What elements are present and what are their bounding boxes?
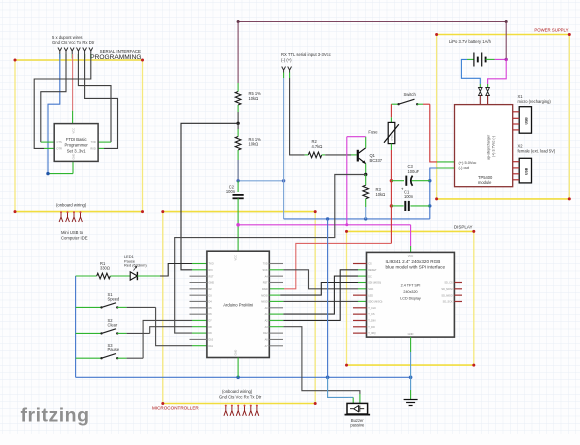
connector arrows dupont serial header — [58, 48, 93, 59]
switch S1 Speed — [76, 292, 156, 308]
svg-text:PROGRAMMING: PROGRAMMING — [90, 54, 141, 61]
svg-text:GND: GND — [234, 350, 238, 356]
wire MOSI to display SDI — [269, 283, 366, 296]
svg-text:Switch: Switch — [404, 92, 417, 97]
svg-text:RX TTL serial input 3-3Vcc: RX TTL serial input 3-3Vcc — [281, 52, 331, 57]
wire Vcc red arrow3 to FTDI VCC — [72, 54, 74, 124]
connector X1 micro USB — [513, 94, 552, 133]
svg-text:100uF: 100uF — [408, 169, 420, 174]
svg-text:RST: RST — [263, 282, 268, 285]
wire GND horizontal bus middle — [284, 217, 430, 220]
svg-text:LED: LED — [368, 294, 373, 297]
wire GND bus bottom — [76, 376, 413, 380]
wire blue bus vertical — [75, 276, 77, 377]
wire LED to Arduino D13 — [160, 264, 207, 277]
svg-text:D10: D10 — [209, 339, 214, 342]
svg-text:LCD Display: LCD Display — [400, 296, 421, 300]
wire battery- to charger in- — [461, 59, 480, 87]
svg-text:Red (633nm): Red (633nm) — [124, 263, 147, 268]
svg-text:100n: 100n — [404, 194, 414, 199]
resistor R5 — [235, 91, 261, 105]
svg-text:module: module — [478, 180, 492, 185]
wire R4 to gnd tap — [237, 150, 239, 181]
wire buzzer left to GND — [328, 377, 354, 403]
wire switch left to fuse — [390, 104, 392, 122]
resistor R3 — [363, 185, 385, 198]
svg-text:T_CLK: T_CLK — [368, 307, 376, 310]
svg-text:RST: RST — [209, 275, 214, 278]
capacitor C3 — [391, 164, 429, 192]
svg-text:(+) 3.7Vcc (-): (+) 3.7Vcc (-) — [492, 136, 496, 157]
wire tap to C2 — [237, 181, 239, 192]
wire fuse down +5V rail — [390, 144, 393, 244]
svg-text:10kΩ: 10kΩ — [249, 142, 259, 147]
svg-text:BC337: BC337 — [370, 158, 383, 163]
svg-text:(onboard wiring): (onboard wiring) — [222, 389, 253, 394]
wire MISO to display SDO — [269, 300, 366, 302]
buzzer passive — [345, 403, 371, 427]
wire switch to TP5400 +5V in — [430, 104, 455, 162]
svg-text:SD_SCK: SD_SCK — [443, 301, 453, 304]
svg-text:VCC: VCC — [234, 255, 238, 261]
svg-text:10kΩ: 10kΩ — [376, 192, 386, 197]
label RX TTL serial input — [281, 52, 331, 62]
svg-text:5 x dupont wires: 5 x dupont wires — [52, 35, 83, 40]
resistor R4 — [235, 137, 261, 151]
svg-text:T_IRQ: T_IRQ — [368, 332, 375, 335]
wire Cts arrow2 to FTDI CTS — [41, 54, 66, 142]
node VCC magenta junction — [236, 223, 240, 227]
svg-text:SD_MOSI: SD_MOSI — [441, 288, 453, 291]
svg-text:GND: GND — [209, 282, 215, 285]
svg-text:D11: D11 — [209, 345, 214, 348]
svg-text:DTR: DTR — [57, 147, 62, 151]
display ILI9341 U2 — [367, 252, 455, 337]
svg-text:Clear: Clear — [108, 322, 118, 327]
svg-text:SCK: SCK — [368, 288, 373, 291]
wire A2 to display RESET — [269, 270, 366, 321]
svg-text:female (ext. load 5V): female (ext. load 5V) — [518, 149, 556, 154]
svg-text:up-step/charger: up-step/charger — [487, 134, 491, 160]
wire RX+ to R2 — [290, 73, 309, 155]
svg-text:Gnd Cts Vcc Tx Rx Dtr: Gnd Cts Vcc Tx Rx Dtr — [52, 40, 95, 45]
capacitor C1 — [391, 190, 429, 211]
wire 3.7V top rail — [237, 20, 508, 23]
svg-text:T_DIN: T_DIN — [368, 320, 375, 323]
battery LiPo — [449, 39, 495, 67]
wire rail to R5 — [237, 22, 239, 92]
svg-text:TXD: TXD — [263, 263, 268, 266]
wire R5 to node — [237, 105, 239, 123]
region box MICROCONTROLLER — [152, 210, 317, 410]
svg-text:RXD: RXD — [90, 147, 96, 151]
display left pin stubs — [353, 263, 383, 336]
svg-text:RESET: RESET — [368, 269, 377, 272]
svg-text:TXO: TXO — [209, 263, 214, 266]
svg-text:RXI: RXI — [209, 269, 213, 272]
svg-text:DC: DC — [368, 275, 372, 278]
svg-text:SDO (MISO): SDO (MISO) — [368, 301, 382, 304]
wire magenta VCC rail — [238, 223, 411, 226]
svg-text:D12: D12 — [263, 332, 268, 335]
ground symbol — [404, 400, 418, 406]
label Mini USB to Computer IDE — [61, 230, 88, 240]
region box POWER SUPPLY — [435, 28, 571, 201]
capacitor C2 — [226, 184, 244, 198]
wire RX- to GND bus — [283, 73, 285, 219]
switch power — [391, 92, 429, 105]
wire Tx arrow4 to FTDI TXD — [78, 54, 111, 142]
wire SCK to display — [269, 270, 366, 289]
switch S3 Pause — [76, 343, 144, 359]
svg-text:LiPo 3.7V battery 1A/h: LiPo 3.7V battery 1A/h — [449, 39, 492, 44]
fritzing logo — [21, 405, 90, 427]
svg-text:TXD: TXD — [91, 140, 96, 144]
node R5 R4 junction — [236, 122, 239, 125]
wire divider tap to Arduino RXI — [181, 123, 238, 269]
connector arrows mini USB — [59, 211, 82, 222]
wire S2 to Arduino — [150, 327, 207, 334]
connector arrows RX TTL — [282, 67, 292, 73]
Arduino right pin stubs — [261, 263, 283, 348]
wire C2 to Arduino VCC — [237, 198, 239, 251]
svg-text:Pause: Pause — [108, 347, 120, 352]
FTDI programmer U-FTDI — [54, 124, 98, 162]
wire Q1 emitter chain to Arduino — [175, 164, 368, 334]
svg-text:(onboard wiring): (onboard wiring) — [56, 203, 87, 208]
svg-text:4.7kΩ: 4.7kΩ — [312, 144, 323, 149]
svg-text:10kΩ: 10kΩ — [249, 96, 259, 101]
wire battery+ drop — [505, 22, 507, 60]
wire Q1 collector to magenta rail — [347, 137, 366, 225]
svg-text:micro (recharging): micro (recharging) — [518, 99, 552, 104]
svg-text:FTDI Basic: FTDI Basic — [66, 137, 87, 142]
svg-text:ILI9341 2.4" 240x320 RGB: ILI9341 2.4" 240x320 RGB — [386, 259, 441, 264]
wire emitter to R3 — [365, 175, 367, 186]
svg-text:100n: 100n — [226, 189, 236, 194]
Arduino Pro Mini U1 — [207, 251, 269, 357]
svg-text:Mini USB to: Mini USB to — [61, 230, 84, 235]
svg-text:passive: passive — [350, 422, 365, 427]
svg-text:PTC: PTC — [390, 134, 394, 141]
svg-text:T_CS: T_CS — [368, 313, 375, 316]
svg-text:Fuse: Fuse — [368, 129, 378, 134]
svg-text:fritzing: fritzing — [21, 405, 90, 427]
wire R3 to GND bus — [365, 199, 367, 219]
svg-text:Computer IDE: Computer IDE — [61, 235, 88, 240]
svg-text:MISO: MISO — [261, 301, 267, 304]
svg-text:USB: USB — [525, 167, 529, 175]
resistor R1 — [76, 261, 111, 279]
svg-text:CS: CS — [368, 263, 372, 266]
wire GND riser mid — [327, 219, 329, 377]
wire Gnd blue arrow1 to FTDI GND — [46, 54, 73, 175]
wire R2 to Q1 base — [322, 154, 357, 156]
svg-text:T_DO: T_DO — [368, 326, 375, 329]
svg-text:(-) out: (-) out — [459, 165, 470, 170]
label onboard wiring microcontroller — [219, 389, 262, 399]
region box DISPLAY — [345, 225, 475, 367]
svg-text:Programmer: Programmer — [65, 143, 89, 148]
wire display GND to ground — [410, 337, 412, 399]
svg-text:GND: GND — [71, 154, 75, 160]
svg-text:SCK: SCK — [263, 269, 268, 272]
wire A1 to display DC — [269, 276, 366, 314]
wire node to R4 — [237, 123, 239, 136]
svg-text:MOSI: MOSI — [261, 294, 268, 297]
svg-text:SD_MISO: SD_MISO — [441, 294, 452, 297]
wire battery+ to charger in+ — [488, 58, 508, 88]
transistor Q1 BC337 — [358, 148, 383, 164]
svg-text:Speed: Speed — [108, 296, 121, 301]
svg-text:Gnd Cts Vcc Rx Tx Dtr: Gnd Cts Vcc Rx Tx Dtr — [219, 395, 262, 400]
svg-text:Arduino ProMini: Arduino ProMini — [223, 303, 253, 308]
TP5400 module — [455, 105, 513, 187]
wire Rx arrow5 to FTDI RXD — [85, 54, 118, 148]
svg-text:RAW: RAW — [262, 288, 268, 291]
connector X2 female — [513, 144, 556, 183]
region box SERIAL INTERFACE PROGRAMMING — [14, 49, 145, 213]
svg-text:240x320: 240x320 — [403, 290, 417, 294]
svg-text:MICROCONTROLLER: MICROCONTROLLER — [152, 406, 199, 411]
label 5x dupont wires — [52, 35, 95, 45]
svg-text:VCC: VCC — [408, 254, 414, 258]
wire S1 to Arduino — [156, 307, 207, 345]
wire A3 to buzzer — [269, 327, 360, 404]
connector pin pair battery — [479, 88, 490, 105]
wire Arduino GND pin to bus — [237, 358, 239, 378]
svg-text:CTS: CTS — [57, 140, 62, 144]
wire magenta to display VCC — [410, 225, 412, 253]
switch S2 Clear — [76, 318, 150, 334]
svg-text:GND: GND — [408, 332, 414, 336]
svg-text:DISPLAY: DISPLAY — [454, 225, 473, 230]
wire S3 to Arduino — [143, 320, 207, 358]
svg-text:SDI (MOSI): SDI (MOSI) — [368, 282, 381, 285]
wire +5V to Arduino RAW — [269, 243, 391, 288]
svg-text:2.4 TFT SPI: 2.4 TFT SPI — [401, 284, 421, 288]
fuse PTC — [368, 122, 398, 143]
wire gnd tap to RX- riser — [236, 179, 285, 182]
connector arrows onboard bottom — [224, 405, 259, 416]
wire Dtr arrow6 to FTDI DTR — [34, 54, 91, 148]
svg-text:SD_CS: SD_CS — [444, 282, 453, 285]
svg-text:VCC: VCC — [71, 128, 75, 134]
svg-text:Set 3..3v1: Set 3..3v1 — [67, 148, 87, 153]
Arduino left pin stubs — [190, 263, 215, 348]
wire GND bus up to TP5400 out- — [428, 168, 454, 219]
svg-text:(-) (+): (-) (+) — [281, 57, 292, 62]
svg-text:POWER SUPPLY: POWER SUPPLY — [534, 28, 568, 33]
svg-text:USB: USB — [525, 117, 529, 125]
display right pin stubs SD — [441, 282, 462, 304]
LED1 — [110, 254, 160, 280]
resistor R2 — [308, 139, 322, 158]
svg-text:330Ω: 330Ω — [100, 266, 110, 271]
svg-text:blue model with SPI interface: blue model with SPI interface — [386, 264, 446, 269]
